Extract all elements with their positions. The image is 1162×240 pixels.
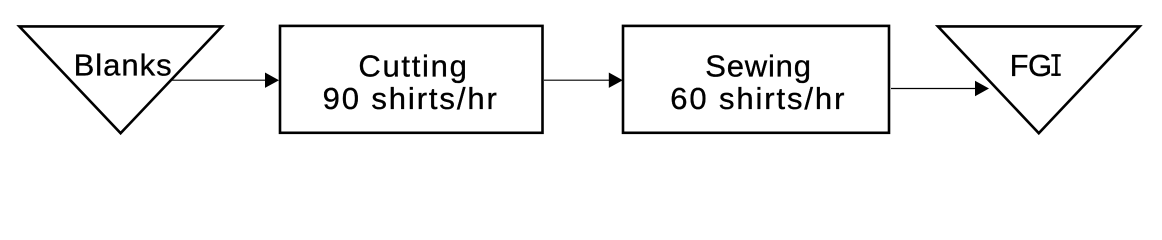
svg-text:Blanks: Blanks <box>74 48 172 83</box>
svg-text:FG: FG <box>1010 48 1053 83</box>
wire arrow 3 <box>891 88 978 90</box>
inventory triangle FGI <box>938 26 1140 133</box>
process box Sewing <box>623 26 889 133</box>
wire arrow 2 <box>544 79 610 81</box>
arrowhead 3 <box>975 81 989 96</box>
wire arrow 1 <box>172 79 266 81</box>
arrowhead 2 <box>609 73 623 88</box>
svg-text:Cutting: Cutting <box>358 49 467 84</box>
svg-text:Sewing: Sewing <box>705 49 811 84</box>
process box Cutting <box>280 26 543 133</box>
svg-text:60 shirts/hr: 60 shirts/hr <box>670 81 844 116</box>
svg-text:90 shirts/hr: 90 shirts/hr <box>323 81 497 116</box>
label FGI <box>1010 48 1061 83</box>
arrowhead 1 <box>265 73 279 88</box>
inventory triangle Blanks <box>19 26 222 133</box>
